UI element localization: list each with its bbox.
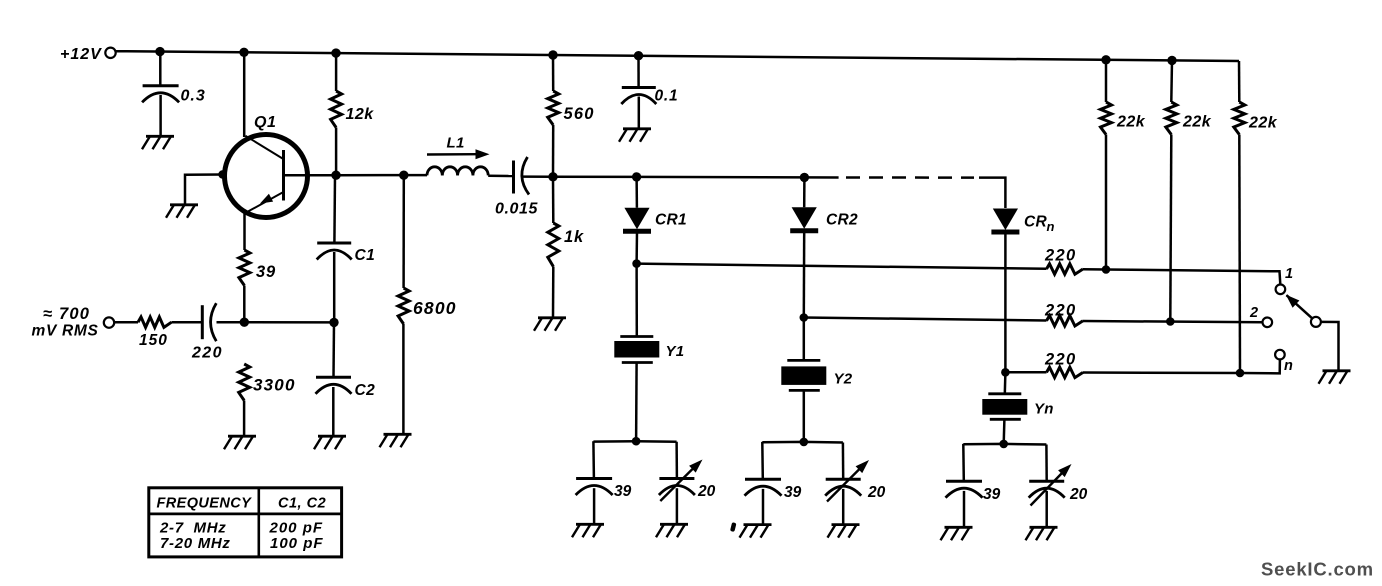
svg-text:Y2: Y2 <box>834 371 853 388</box>
node Q1 can <box>218 170 226 178</box>
crystal Yn <box>982 394 1027 420</box>
resistor 1k <box>548 223 559 267</box>
wire Y2col left down <box>761 442 764 479</box>
resistor 3300 <box>239 364 250 401</box>
svg-text:39: 39 <box>256 263 276 281</box>
wire Y1col right down <box>675 442 678 478</box>
wire Yncol right down <box>1045 445 1048 481</box>
capacitor 20 Y2col (variable) <box>825 460 869 502</box>
wire 150 to 220 <box>172 321 203 324</box>
svg-text:SeekIC.com: SeekIC.com <box>1261 559 1374 580</box>
wire Y2col bar <box>762 441 843 444</box>
wire C2 bottom <box>332 387 335 436</box>
wire 1k bottom <box>552 267 555 318</box>
terminal sw pos1 <box>1276 285 1286 295</box>
svg-text:220: 220 <box>1044 302 1076 320</box>
wire Q1 emitter <box>243 211 246 250</box>
node rail-12k <box>331 48 340 57</box>
svg-text:Q1: Q1 <box>254 114 277 131</box>
label 20 Y1col <box>697 483 716 500</box>
label Y1 <box>666 343 685 360</box>
wire row1 right <box>1083 268 1106 271</box>
svg-text:7-20 MHz: 7-20 MHz <box>160 535 231 552</box>
node emitter-input <box>240 318 249 327</box>
wire row3 right <box>1083 359 1280 373</box>
capacitor 20 Y1col (variable) <box>659 460 703 502</box>
svg-text:C1: C1 <box>355 247 376 264</box>
node CR1-row1 <box>632 259 641 268</box>
ground Y2col right <box>828 525 860 538</box>
label 22k3 <box>1248 115 1278 132</box>
wire row2 left <box>804 318 1047 321</box>
wire 22k1 bottom <box>1105 135 1108 270</box>
wire Y2col right gnd stub <box>842 489 845 524</box>
svg-text:Y1: Y1 <box>666 343 685 360</box>
label Y2 <box>834 371 853 388</box>
wire Y1 bottom <box>635 363 638 442</box>
ground 3300 <box>224 436 256 449</box>
wire Q1 can to ground <box>185 175 223 205</box>
capacitor 39 Y1col <box>576 479 613 496</box>
wire 22k3 bottom <box>1238 135 1241 374</box>
wire mid 560-CR1 <box>553 176 637 179</box>
svg-text:39: 39 <box>614 483 632 500</box>
table cell 7-20 MHz <box>160 535 231 552</box>
wire mid to CRn corner <box>979 178 1005 208</box>
ground Y1col left <box>572 524 604 537</box>
svg-text:2-7 MHz: 2-7 MHz <box>159 520 226 537</box>
wire Q1 collector <box>243 52 246 137</box>
diode CR1 <box>623 208 651 232</box>
wire Yncol left down <box>962 444 965 481</box>
wire Y2col right down <box>842 443 845 479</box>
node C1C2 <box>329 318 338 327</box>
capacitor 39 Yncol <box>946 481 983 498</box>
label 560 <box>564 105 595 123</box>
diode CR2 <box>790 207 818 231</box>
crystal Y1 <box>614 337 659 363</box>
wire 12k bottom <box>335 128 338 176</box>
node mid-CR1 <box>632 172 641 181</box>
node rail-0.1 <box>634 51 643 60</box>
wire mid CR2-dash <box>804 176 838 179</box>
svg-text:0.015: 0.015 <box>495 201 539 218</box>
wire mid dashed <box>846 176 974 179</box>
ground switch <box>1319 371 1351 384</box>
arrow L1 <box>427 149 490 159</box>
resistor 220 row1 <box>1047 264 1084 274</box>
svg-text:39: 39 <box>983 486 1001 503</box>
wire CR2 bottom <box>803 231 806 318</box>
wire Yncol bar <box>963 443 1046 446</box>
wire 0.3 bottom <box>159 95 162 136</box>
label CR2 <box>826 212 858 229</box>
label 22k1 <box>1116 114 1146 131</box>
label mV RMS <box>32 323 99 340</box>
wire 560 bottom <box>552 125 555 177</box>
terminal sw pos2 <box>1263 318 1273 328</box>
label CRn <box>1024 214 1055 235</box>
capacitor C1 <box>317 243 352 260</box>
ground 6800 <box>380 434 412 447</box>
switch arm <box>1286 295 1313 319</box>
svg-text:C1, C2: C1, C2 <box>278 496 326 512</box>
wire Y1col right gnd stub <box>676 488 679 524</box>
label L1 <box>447 135 465 152</box>
label sw 1 <box>1285 266 1293 282</box>
resistor 6800 <box>398 288 409 324</box>
wire CR1 to Y1 <box>635 264 638 337</box>
resistor 12k <box>331 91 342 128</box>
ground 0.3 <box>142 136 174 149</box>
wire CR1 top <box>635 177 638 208</box>
svg-text:20: 20 <box>697 483 716 500</box>
table frame <box>149 488 342 557</box>
svg-text:L1: L1 <box>447 135 465 152</box>
node row1-22k1 <box>1102 265 1111 274</box>
wire CR2 top <box>803 177 806 207</box>
wire pole to ground <box>1321 322 1339 371</box>
wire 39 bottom <box>243 286 246 323</box>
svg-text:12k: 12k <box>346 106 375 123</box>
wire row1 to sw1 <box>1106 270 1280 285</box>
wire Y1col left down <box>592 441 595 478</box>
transistor Q1 <box>225 135 308 218</box>
wire node to C-node <box>244 321 334 324</box>
svg-text:≈ 700: ≈ 700 <box>43 305 90 323</box>
svg-text:0.1: 0.1 <box>655 88 679 105</box>
resistor 22k R3 <box>1234 102 1245 135</box>
label 150 <box>139 332 168 349</box>
terminal sw posn <box>1275 350 1285 360</box>
label 6800 <box>413 298 457 318</box>
crystal Y2 <box>781 360 826 390</box>
label C2 <box>355 382 376 399</box>
capacitor C2 <box>316 377 352 394</box>
stray ink mark <box>730 522 737 532</box>
svg-text:1: 1 <box>1285 266 1293 282</box>
inductor L1 <box>427 167 488 176</box>
wire mid CR1-CR2 <box>637 176 805 179</box>
node mid-560 <box>548 172 557 181</box>
node rail-22k2 <box>1167 56 1176 65</box>
label sw 2 <box>1249 305 1258 321</box>
label 220 input <box>191 345 223 362</box>
svg-text:220: 220 <box>1044 351 1076 369</box>
+12V label <box>60 46 102 63</box>
label 220 row2 <box>1044 302 1076 320</box>
ground Yncol left <box>941 527 973 540</box>
wire L1 to cap <box>488 175 513 178</box>
ground Yncol right <box>1026 527 1058 540</box>
diode CRn <box>991 209 1019 233</box>
node rail-C0.3 <box>155 47 164 56</box>
table cell 100 pF <box>270 535 324 552</box>
node mid-6800 <box>399 171 408 180</box>
svg-text:Yn: Yn <box>1034 401 1054 418</box>
resistor 220 row3 <box>1047 367 1084 377</box>
svg-text:22k: 22k <box>1116 114 1146 131</box>
label Q1 <box>254 114 277 131</box>
wire 0.015 to node <box>523 175 553 178</box>
wire 12k top <box>335 53 338 91</box>
label 0.1 <box>655 88 679 105</box>
wire Y2 bottom <box>803 390 806 441</box>
label 220 row3 <box>1044 351 1076 369</box>
wire Q1 base lead <box>284 174 337 177</box>
svg-text:n: n <box>1284 358 1293 374</box>
label 3300 <box>253 376 296 395</box>
svg-text:CR2: CR2 <box>826 212 858 229</box>
capacitor 220 (input) <box>202 303 216 341</box>
svg-text:6800: 6800 <box>413 298 457 318</box>
svg-text:200 pF: 200 pF <box>269 520 324 537</box>
wire CRn to Yn <box>1004 372 1007 394</box>
wire 0.3 top <box>159 52 162 86</box>
resistor 39 (emitter) <box>239 250 250 286</box>
node CRn-row3 <box>1001 368 1010 377</box>
capacitor 0.1 <box>621 88 656 105</box>
svg-text:220: 220 <box>1044 247 1076 265</box>
wire 560 top <box>552 55 555 91</box>
wire 22k2 bottom <box>1170 135 1171 322</box>
wire C2 top <box>332 322 335 377</box>
svg-text:1k: 1k <box>564 228 584 246</box>
node Y2col junction <box>800 438 809 447</box>
terminal sw pole <box>1311 317 1321 327</box>
ground Y2col left <box>740 525 772 538</box>
resistor 150 <box>138 317 172 327</box>
ground Y1col right <box>656 524 688 537</box>
label 0.3 <box>181 88 206 105</box>
terminal input <box>104 317 114 327</box>
label 39 emitter <box>256 263 276 281</box>
node rail-Q1C <box>239 48 248 57</box>
label CR1 <box>655 212 687 229</box>
capacitor 39 Y2col <box>745 479 782 496</box>
capacitor 20 Yncol (variable) <box>1029 464 1072 506</box>
node mid-CR2 <box>800 173 809 182</box>
wire Y2col left gnd stub <box>762 489 765 524</box>
wire C1 bottom <box>333 252 336 322</box>
wire 0.1 bottom <box>638 97 641 129</box>
ground C2 <box>314 436 346 449</box>
wire 6800 top <box>402 175 405 288</box>
node Yncol junction <box>999 440 1008 449</box>
watermark SeekIC.com <box>1261 559 1374 580</box>
wire 3300 bottom <box>243 401 246 437</box>
wire 22k2 top <box>1170 60 1173 102</box>
resistor 22k R2 <box>1166 102 1177 135</box>
wire Yn bottom <box>1002 419 1005 444</box>
wire row2 right <box>1083 321 1262 322</box>
label 20 Y2col <box>867 484 886 501</box>
wire row3 left <box>1005 371 1046 374</box>
label 39 Yncol <box>983 486 1001 503</box>
node Y1col junction <box>632 437 641 446</box>
label Yn <box>1034 401 1054 418</box>
wire 22k1 top <box>1105 60 1108 102</box>
svg-text:560: 560 <box>564 105 595 123</box>
wire mid to L1 <box>336 174 427 177</box>
wire Y1col bar <box>593 440 676 443</box>
svg-text:CR1: CR1 <box>655 212 687 229</box>
wire Y1col left gnd stub <box>593 488 596 524</box>
wire CRn bottom <box>1004 232 1007 372</box>
svg-text:0.3: 0.3 <box>181 88 206 105</box>
ground Q1 can <box>166 205 198 218</box>
label sw n <box>1284 358 1293 374</box>
label 39 Y2col <box>784 484 802 501</box>
svg-text:20: 20 <box>867 484 886 501</box>
wire Yncol right gnd stub <box>1045 491 1048 527</box>
svg-text:220: 220 <box>191 345 223 362</box>
label 39 Y1col <box>614 483 632 500</box>
label 12k <box>346 106 375 123</box>
svg-text:100 pF: 100 pF <box>270 535 324 552</box>
svg-text:C2: C2 <box>355 382 376 399</box>
wire 220 to node <box>217 321 245 324</box>
node CR2-row2 <box>800 313 809 322</box>
table header C1 C2 <box>278 496 326 512</box>
label 22k2 <box>1182 114 1212 131</box>
wire Yncol left gnd stub <box>963 491 966 527</box>
wire +12V rail <box>116 51 1239 61</box>
svg-text:39: 39 <box>784 484 802 501</box>
label 220 row1 <box>1044 247 1076 265</box>
label 20 Yncol <box>1069 486 1088 503</box>
label approx 700 <box>43 305 90 323</box>
wire 6800 bottom <box>402 324 405 434</box>
wire CR2 to Y2 <box>803 318 806 361</box>
node rail-22k1 <box>1101 55 1110 64</box>
wire CR1 bottom <box>635 231 638 263</box>
svg-text:2: 2 <box>1249 305 1258 321</box>
capacitor 0.015 <box>514 157 530 195</box>
svg-text:22k: 22k <box>1248 115 1278 132</box>
terminal +12V <box>105 48 115 58</box>
wire row1 left <box>637 264 1047 269</box>
node rail-560 <box>548 50 557 59</box>
svg-text:3300: 3300 <box>253 376 296 395</box>
svg-text:FREQUENCY: FREQUENCY <box>157 496 253 512</box>
svg-text:CR: CR <box>1024 214 1047 231</box>
svg-text:n: n <box>1047 219 1055 234</box>
table cell 200 pF <box>269 520 324 537</box>
svg-text:20: 20 <box>1069 486 1088 503</box>
label 1k <box>564 228 584 246</box>
svg-text:150: 150 <box>139 332 168 349</box>
label C1 <box>355 247 376 264</box>
wire 0.1 top <box>637 56 640 88</box>
svg-text:+12V: +12V <box>60 46 102 63</box>
label 0.015 <box>495 201 539 218</box>
svg-text:mV RMS: mV RMS <box>32 323 99 340</box>
node mid-12k <box>331 171 340 180</box>
wire input <box>114 321 138 324</box>
svg-text:22k: 22k <box>1182 114 1212 131</box>
ground 1k <box>534 318 566 331</box>
capacitor 0.3 <box>142 86 179 103</box>
wire 22k3 top <box>1238 61 1241 102</box>
node row3-22k3 <box>1236 369 1245 378</box>
resistor 560 <box>548 91 559 125</box>
table cell 2-7 MHz <box>159 520 226 537</box>
wire C1 top <box>333 175 336 243</box>
resistor 22k R1 <box>1101 102 1112 135</box>
table header FREQUENCY <box>157 496 253 512</box>
wire 1k top <box>552 177 555 223</box>
resistor 220 row2 <box>1047 316 1084 326</box>
node row2-22k2 <box>1166 317 1175 326</box>
ground 0.1 <box>619 129 651 142</box>
